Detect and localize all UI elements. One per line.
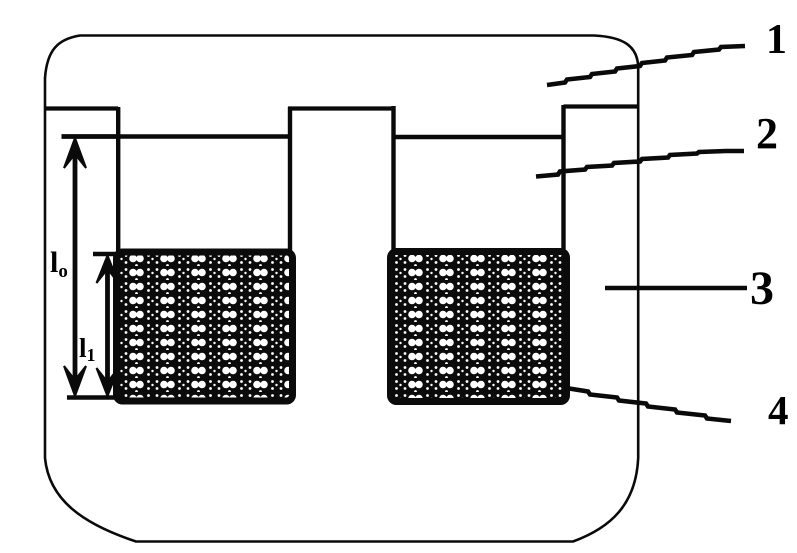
center leg right wall (391, 106, 395, 400)
dimension l1 line with arrows (93, 254, 125, 396)
center leg top line (288, 106, 395, 110)
svg-text:l1: l1 (79, 333, 96, 365)
right wall (561, 105, 565, 400)
right window top line (393, 135, 564, 139)
leader line to 4 (566, 388, 731, 421)
leader line to 1 (547, 46, 745, 85)
right winding block 4 (391, 252, 567, 402)
left winding block 4 (117, 252, 293, 401)
dimension l0 line with arrows (62, 137, 122, 398)
leader line to 3 (605, 286, 747, 291)
core right shoulder line (564, 104, 639, 108)
svg-text:3: 3 (750, 262, 774, 315)
leader line to 2 (536, 151, 744, 177)
svg-text:lo: lo (50, 246, 68, 282)
left window top line (62, 134, 292, 138)
svg-text:2: 2 (756, 109, 778, 158)
svg-text:4: 4 (768, 387, 789, 433)
center leg left wall (288, 107, 292, 400)
svg-text:1: 1 (766, 17, 787, 63)
left wall (116, 107, 120, 400)
outer shell case 1 (45, 36, 638, 542)
core left shoulder line (45, 106, 119, 110)
